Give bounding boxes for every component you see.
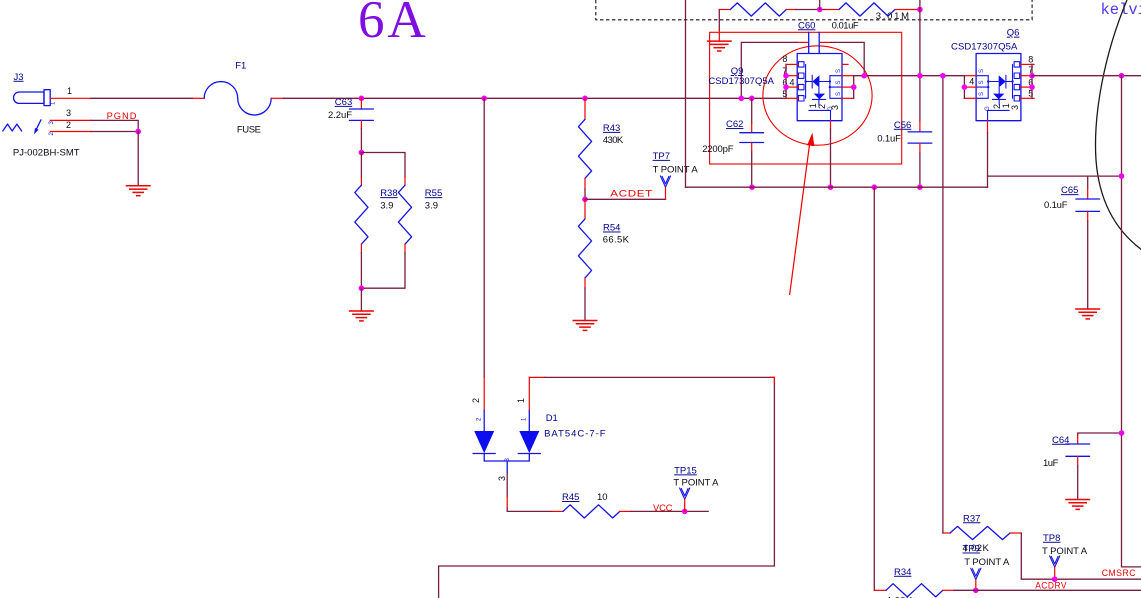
svg-text:BAT54C-7-F: BAT54C-7-F [544, 428, 606, 439]
svg-text:8: 8 [782, 54, 787, 64]
resistor R45 [552, 492, 631, 518]
ground (below C65) [1075, 309, 1100, 319]
svg-text:2: 2 [817, 104, 827, 109]
svg-text:3.9: 3.9 [425, 201, 438, 212]
wire R34 to right edge [954, 589, 1141, 591]
svg-text:1: 1 [51, 101, 57, 105]
test point TP9 [963, 544, 1010, 591]
junction TP8 [1052, 576, 1058, 582]
wire right rail [1122, 76, 1141, 567]
wire J3 pin2 [50, 131, 91, 133]
test point TP7 [653, 151, 699, 199]
svg-text:C56: C56 [894, 120, 911, 131]
wire J3 pin1 to fuse F1 [50, 97, 91, 99]
svg-text:PGND: PGND [107, 111, 137, 121]
junction C60 right [861, 73, 867, 79]
junction Q6 drain pin6 [1029, 84, 1035, 90]
capacitor C64 [1043, 433, 1122, 500]
test point TP15 [673, 465, 719, 511]
capacitor C60 [797, 20, 859, 53]
wire C60 snubber loop [741, 42, 797, 98]
svg-text:C65: C65 [1061, 185, 1078, 196]
svg-text:G: G [985, 106, 991, 111]
svg-text:S: S [836, 69, 842, 73]
svg-text:D1: D1 [546, 413, 558, 424]
wire stub up [819, 0, 821, 10]
svg-text:2.2uF: 2.2uF [328, 110, 352, 121]
connector J3 [3, 72, 80, 159]
wire to ground [360, 288, 362, 311]
svg-text:TP15: TP15 [674, 465, 697, 476]
wire Q6 gate down [987, 121, 989, 133]
resistor R55 [398, 177, 442, 253]
svg-text:2: 2 [477, 417, 483, 421]
svg-text:T POINT A: T POINT A [673, 477, 719, 488]
wire vertical from top (left of Q9 block) [685, 0, 687, 187]
wire diode common cathode [484, 460, 529, 462]
svg-text:2: 2 [471, 398, 481, 403]
svg-text:430K: 430K [603, 135, 624, 146]
junction C62 bottom [749, 184, 755, 190]
wire CMSRC branch vertical [873, 187, 875, 590]
resistor (top row, left) [730, 3, 786, 16]
junction Q9 source mid [851, 84, 857, 90]
svg-text:T POINT A: T POINT A [964, 557, 1010, 568]
junction right rail top [1119, 73, 1125, 79]
junction C64 rail [1119, 430, 1125, 436]
svg-text:C63: C63 [335, 97, 352, 108]
annotation arc (large ellipse) [1096, 0, 1141, 250]
ground (below R38) [349, 311, 374, 321]
svg-text:1uF: 1uF [1043, 458, 1059, 469]
wire R37 to ACDRV [1021, 533, 1141, 579]
svg-text:3: 3 [49, 121, 55, 125]
red annotation arrow [790, 141, 810, 295]
red circle (highlight ellipse) [763, 46, 872, 145]
junction R38 top [359, 150, 365, 156]
wire top row left corner [718, 10, 720, 31]
ground (below R54) [573, 321, 598, 331]
wire Q6 source tie [964, 75, 976, 77]
resistor R43 [578, 98, 623, 199]
wire C56 branch vertical [919, 0, 921, 76]
svg-text:CSD17307Q5A: CSD17307Q5A [951, 42, 1018, 53]
svg-text:S: S [836, 80, 842, 84]
diode D1 (pin2 half) [473, 431, 495, 461]
resistor R37 [943, 513, 1021, 554]
svg-text:1: 1 [522, 417, 528, 421]
wire VCC [631, 510, 708, 512]
svg-text:10: 10 [597, 492, 608, 503]
capacitor C62 [702, 98, 763, 187]
junction R38 bottom [359, 285, 365, 291]
svg-text:0.1uF: 0.1uF [1044, 200, 1068, 211]
svg-text:TP9: TP9 [963, 544, 980, 555]
wire bottom bus (PGND side) [686, 186, 988, 188]
svg-text:CMSRC: CMSRC [1102, 568, 1136, 578]
svg-text:R55: R55 [425, 188, 442, 199]
red box (highlight rectangle) [710, 32, 902, 164]
svg-text:R38: R38 [380, 188, 397, 199]
svg-text:1: 1 [67, 86, 72, 96]
junction gate bus left [872, 184, 878, 190]
svg-text:ACDET: ACDET [610, 188, 653, 198]
junction D1 branch [481, 96, 487, 102]
wire Q6 drain tie [1020, 63, 1034, 65]
junction Q9 drain pin7 [783, 73, 789, 79]
junction Q9 drain pin6 [783, 84, 789, 90]
svg-text:5: 5 [782, 89, 787, 99]
resistor R38 [355, 177, 398, 253]
svg-text:2200pF: 2200pF [702, 144, 733, 155]
junction C56 top [917, 73, 923, 79]
svg-text:VCC: VCC [653, 503, 673, 513]
svg-text:T POINT A: T POINT A [653, 165, 699, 176]
junction ACDET node [582, 197, 588, 203]
wire bus down to diode D1 pin2 [483, 98, 485, 377]
svg-text:3: 3 [66, 108, 71, 118]
svg-text:66.5K: 66.5K [603, 235, 630, 246]
capacitor C65 [1044, 176, 1100, 309]
junction Q6 drain pin7 [1029, 73, 1035, 79]
svg-text:Q6: Q6 [1007, 28, 1020, 39]
junction TP15 [682, 509, 688, 515]
junction PGND node [135, 129, 141, 135]
capacitor C56 [877, 76, 932, 188]
wire PGND to ground [137, 132, 139, 186]
svg-text:3.01M: 3.01M [876, 11, 909, 22]
svg-text:S: S [979, 92, 985, 96]
wire between top resistors [786, 9, 796, 11]
svg-text:C62: C62 [726, 119, 743, 130]
ground (PGND) [126, 186, 151, 196]
dashed box outline [596, 0, 1032, 20]
resistor R34 [874, 567, 954, 598]
junction TP9 [973, 588, 979, 594]
wire J3 pin3 [50, 119, 91, 121]
resistor 3.01M (top row, right) [839, 3, 895, 16]
svg-text:0.1uF: 0.1uF [877, 134, 901, 145]
svg-text:R54: R54 [603, 223, 620, 234]
svg-text:C60: C60 [798, 20, 815, 31]
svg-text:3: 3 [497, 476, 507, 481]
wire gate to C65 [988, 175, 1122, 177]
svg-text:1: 1 [516, 398, 526, 403]
svg-text:0.01uF: 0.01uF [832, 20, 859, 31]
svg-text:3.9: 3.9 [380, 201, 393, 212]
svg-text:R45: R45 [562, 492, 579, 503]
wire Q9 gate down [830, 121, 832, 129]
junction C56 bottom [917, 184, 923, 190]
wire C63 to R38/R55 [360, 129, 362, 153]
svg-text:PJ-002BH-SMT: PJ-002BH-SMT [13, 148, 80, 159]
fuse F1 [204, 82, 271, 116]
svg-text:4: 4 [790, 77, 795, 87]
junction top right [917, 7, 923, 13]
svg-text:TP7: TP7 [653, 151, 670, 162]
svg-text:S: S [979, 80, 985, 84]
wire ACDRV branch vertical [942, 76, 944, 533]
svg-text:3: 3 [1010, 105, 1020, 110]
svg-text:R34: R34 [894, 567, 911, 578]
svg-text:T POINT A: T POINT A [1042, 546, 1088, 557]
wire parallel resistor top bar [361, 153, 405, 178]
svg-text:FUSE: FUSE [237, 124, 261, 135]
wire parallel resistor bottom bar [361, 253, 405, 288]
svg-text:6A: 6A [358, 0, 429, 49]
svg-text:3: 3 [505, 458, 511, 462]
svg-text:8: 8 [1028, 55, 1033, 65]
svg-text:S: S [979, 69, 985, 73]
wire fuse to node C63 [271, 97, 283, 99]
junction C63 node [359, 96, 365, 102]
svg-text:R43: R43 [603, 123, 620, 134]
svg-text:3: 3 [830, 105, 840, 110]
svg-text:R37: R37 [963, 513, 980, 524]
svg-text:TP8: TP8 [1043, 533, 1060, 544]
junction R43 branch [582, 96, 588, 102]
svg-text:F1: F1 [235, 60, 246, 71]
ground (below C64) [1065, 500, 1090, 510]
junction C65 rail [1119, 173, 1125, 179]
junction C60 left [739, 96, 745, 102]
ground (top, inside red box) [707, 41, 732, 51]
junction C62 top [749, 96, 755, 102]
wire main AC bus [361, 97, 786, 99]
junction Q9 gate to bus [828, 184, 834, 190]
junction top row [817, 7, 823, 13]
wire Q6 drain to right edge [1032, 75, 1141, 77]
junction ACDRV top [940, 73, 946, 79]
wire D1 pin1 frame [529, 376, 545, 378]
resistor R54 [578, 199, 629, 320]
svg-text:2: 2 [66, 120, 71, 130]
wire Q9 source to Q6 source [854, 75, 965, 77]
svg-text:4: 4 [969, 77, 974, 87]
transistor Q6 [951, 28, 1021, 121]
svg-text:CSD17307Q5A: CSD17307Q5A [708, 76, 774, 87]
wire ACDET [585, 198, 666, 200]
test point TP8 [1042, 533, 1088, 579]
diode D1 (pin1 half) [518, 377, 540, 461]
svg-text:ACDRV: ACDRV [1035, 580, 1067, 590]
capacitor C63 [328, 97, 373, 129]
svg-text:J3: J3 [14, 72, 24, 83]
wire top resistor to C56 branch [895, 9, 920, 11]
transistor Q9 [708, 54, 842, 121]
wire Q9 source tie [842, 63, 848, 65]
wire Q9 drain tie [785, 64, 787, 98]
svg-text:2: 2 [992, 104, 1002, 109]
junction Q6 source mid [962, 84, 968, 90]
svg-text:S: S [836, 92, 842, 96]
